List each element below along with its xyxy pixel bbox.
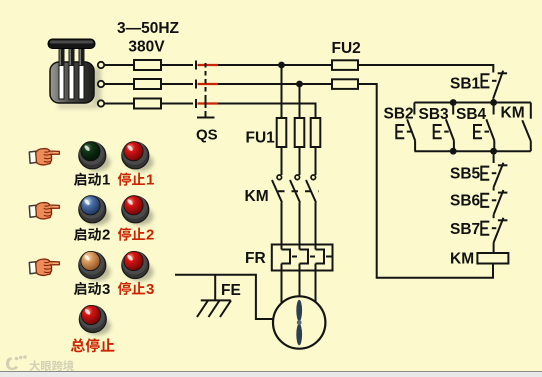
label 停止1 (118, 172, 131, 185)
FR heater element pole 1 (282, 250, 291, 264)
node bottom bus / SB3 (450, 148, 457, 155)
wire SB7 to KM coil (493, 243, 495, 253)
fuse FU2 pole 1 (332, 60, 358, 70)
wire L1 drop to FU1 (281, 65, 283, 118)
wire FU1 to KM pole 2 (299, 147, 301, 175)
wire SB5 to SB6 (493, 187, 495, 190)
svg-text:3: 3 (146, 281, 154, 298)
svg-text:2: 2 (102, 227, 110, 244)
switch QS poles (red blades) (196, 61, 218, 109)
start button 启动3 (round) (79, 251, 111, 281)
terminal node L3 (98, 100, 104, 106)
watermark logo (6, 355, 27, 370)
wire FE branch (214, 275, 216, 301)
label 总停止 (71, 338, 85, 352)
fuse FU1 pole 3 (311, 118, 321, 147)
switch QS linkage (dashed) (197, 63, 215, 118)
node junction L1/FU1 (278, 62, 285, 69)
FR linkage dashes (292, 256, 333, 258)
contactor KM auxiliary contact (NO) (522, 103, 531, 152)
terminal node L2 (98, 81, 104, 87)
motor M (fan) (273, 296, 325, 348)
fuse FU1 pole 2 (295, 118, 305, 147)
fuse FU2 pole 2 (332, 79, 358, 89)
svg-text:1: 1 (146, 172, 154, 189)
wire L1 FU2 to SB1 (358, 65, 493, 73)
node top bus / SB4 (490, 99, 497, 106)
hand pointer row 2 (29, 203, 59, 219)
contactor KM main contact pole 3 (306, 175, 316, 203)
contactor coil KM (477, 253, 508, 264)
fuse FU1 pole 1 (277, 118, 287, 147)
contactor KM main contact pole 2 (290, 175, 300, 203)
label 启动2 (74, 228, 86, 241)
wire KM to FR pole 2 (299, 203, 301, 250)
terminal node L1 (98, 62, 104, 68)
FR heater element pole 3 (316, 250, 325, 264)
pushbutton SB2 (NO) (396, 103, 415, 152)
wire L2 fuse to QS (161, 83, 193, 85)
pushbutton SB5 (NC) (481, 163, 507, 188)
svg-text:1: 1 (102, 172, 110, 189)
contactor KM main contact pole 1 (272, 175, 282, 203)
wire L2 drop to FU1 (299, 84, 301, 118)
wire FR to motor pole 2 (299, 264, 301, 297)
wire L3 terminal to fuse (104, 103, 134, 105)
label 启动3 (74, 282, 86, 295)
pushbutton SB3 (NO) (434, 103, 454, 152)
wire KM to FR pole 1 (281, 203, 283, 250)
hand pointer row 3 (29, 259, 59, 275)
label 启动1 (74, 173, 86, 186)
wire top bus of start branches (414, 102, 530, 104)
thermal relay FR box (272, 245, 333, 271)
stop button 停止3 (round) (122, 251, 154, 281)
hand pointer row 1 (29, 149, 59, 165)
line fuse L3 (134, 99, 161, 109)
wire FE to motor (175, 275, 273, 319)
svg-text:2: 2 (146, 227, 154, 244)
label 停止2 (118, 227, 131, 240)
node bottom bus / SB4 (490, 148, 497, 155)
node top bus / SB3 (450, 99, 457, 106)
wire L2 terminal to fuse (104, 83, 134, 85)
wire L2 FU2 to KM coil return (358, 84, 493, 278)
wire FU1 to KM pole 3 (315, 147, 317, 175)
pushbutton SB1 (NC) (482, 71, 508, 99)
line fuse L1 (134, 60, 161, 70)
wire bottom bus of start branches (414, 150, 530, 152)
pushbutton SB7 (NC) (481, 218, 507, 243)
ground FE symbol (197, 300, 231, 317)
KM contact linkage (dashed) (278, 190, 319, 192)
wire bottom bus to SB5 (493, 151, 495, 163)
pushbutton SB4 (NO) (474, 103, 494, 152)
wire L2 after QS (218, 83, 332, 85)
pushbutton SB6 (NC) (481, 190, 507, 215)
wire L1 fuse to QS (161, 64, 193, 66)
wire L3 fuse to QS (161, 103, 193, 105)
wire KM to FR pole 3 (315, 203, 317, 250)
wire L3 after QS (218, 104, 316, 119)
stop button 停止1 (round) (122, 141, 154, 171)
master stop button 总停止 (round) (79, 305, 111, 335)
wire FR to motor pole 1 (281, 264, 283, 304)
wire L1 after QS (218, 64, 332, 66)
wire FU1 to KM pole 1 (281, 147, 283, 175)
3-phase source plug (48, 39, 101, 109)
FR heater element pole 2 (300, 250, 309, 264)
wire L1 terminal to fuse (104, 64, 134, 66)
start button 启动2 (round) (79, 195, 111, 225)
svg-text:3: 3 (102, 281, 110, 298)
wire SB6 to SB7 (493, 215, 495, 218)
node junction L2/FU1 (296, 81, 303, 88)
wire SB1 to bus (492, 98, 494, 102)
line fuse L2 (134, 79, 161, 89)
label 停止3 (118, 282, 131, 295)
start button 启动1 (round) (79, 141, 111, 171)
wire FR to motor pole 3 (315, 264, 317, 303)
stop button 停止2 (round) (122, 195, 154, 225)
